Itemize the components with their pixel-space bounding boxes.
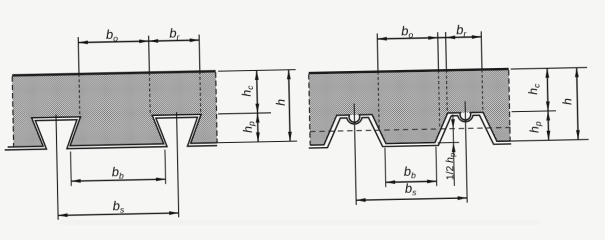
svg-text:h: h <box>274 99 288 106</box>
svg-text:h: h <box>560 98 574 105</box>
